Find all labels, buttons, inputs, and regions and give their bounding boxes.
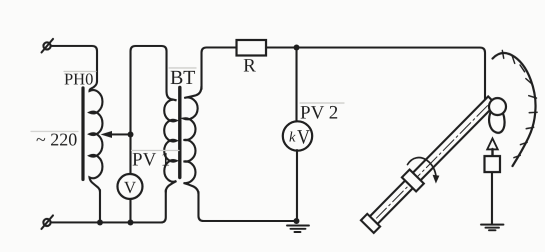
voltmeter PV1 bbox=[117, 174, 142, 199]
overline above RN0 bbox=[64, 70, 96, 72]
transformer BT secondary winding bbox=[183, 86, 201, 194]
wire PV2 to ground bus bbox=[296, 150, 298, 221]
wire wiper down to voltmeter PV1 bbox=[129, 134, 131, 173]
overline above BT bbox=[169, 67, 196, 69]
wire wiper up and over to BT primary bbox=[130, 46, 166, 135]
wire R to HV corner bbox=[266, 47, 485, 105]
svg-text:V: V bbox=[297, 127, 310, 149]
svg-text:PV 1: PV 1 bbox=[132, 149, 170, 170]
wire BT secondary top to R bbox=[202, 47, 237, 89]
electrode stand block bbox=[484, 156, 500, 172]
wire stand to ground bbox=[491, 172, 493, 224]
ground symbol (measuring circuit) bbox=[287, 226, 309, 233]
junction HV node to PV2 bbox=[294, 45, 300, 51]
svg-text:РН0: РН0 bbox=[64, 69, 93, 88]
svg-text:k: k bbox=[289, 130, 296, 146]
pivot circle bbox=[489, 98, 506, 115]
svg-text:PV 2: PV 2 bbox=[300, 103, 338, 124]
wire PV1 to bottom bus bbox=[129, 199, 131, 223]
wire autotransformer bottom to bus bbox=[99, 190, 101, 222]
kilovoltmeter PV2 bbox=[283, 121, 312, 150]
autotransformer RN0 winding bbox=[89, 81, 102, 192]
wire PV2 branch down bbox=[295, 48, 297, 123]
autotransformer RN0 wiper arrow bbox=[100, 131, 130, 138]
overline above PV2 bbox=[300, 102, 344, 104]
rod body bbox=[370, 96, 496, 224]
wire bottom bus (primary side) bbox=[51, 221, 162, 223]
resistor R bbox=[237, 40, 267, 56]
junction ground node bbox=[293, 218, 299, 224]
rod center line bbox=[377, 106, 488, 218]
transformer BT core bbox=[178, 87, 181, 177]
junction wiper node bbox=[127, 131, 133, 137]
insulating rod (rotated group about pivot) bbox=[360, 93, 499, 233]
junction autotransformer bottom on bus bbox=[97, 219, 103, 225]
svg-text:ВТ: ВТ bbox=[170, 67, 195, 89]
rod end cap bbox=[361, 214, 380, 233]
transformer BT primary winding bbox=[164, 91, 176, 192]
rotation arrow bbox=[407, 158, 439, 184]
autotransformer RN0 core bar bbox=[81, 88, 84, 180]
overline above ~220 bbox=[31, 130, 78, 132]
junction PV1 on bus bbox=[127, 219, 133, 225]
svg-text:~ 220: ~ 220 bbox=[36, 129, 77, 149]
wire BT primary bottom to bus bbox=[161, 190, 166, 223]
svg-text:R: R bbox=[243, 55, 256, 76]
terminal X2 (bottom input) bbox=[41, 215, 53, 229]
rod collar band bbox=[402, 170, 424, 192]
electrode hook below pivot bbox=[489, 112, 504, 132]
wire X1 to autotransformer top bbox=[51, 46, 97, 82]
scale tick marks bbox=[502, 50, 537, 157]
terminal X1 (top input) bbox=[42, 39, 54, 53]
svg-text:V: V bbox=[124, 178, 137, 197]
ground symbol (apparatus) bbox=[481, 225, 504, 231]
overline above PV1 bbox=[131, 149, 179, 151]
lower electrode arrow bbox=[487, 138, 498, 156]
wire BT secondary bottom to ground bus bbox=[198, 192, 296, 221]
discharge gap scale arc bbox=[492, 53, 535, 166]
